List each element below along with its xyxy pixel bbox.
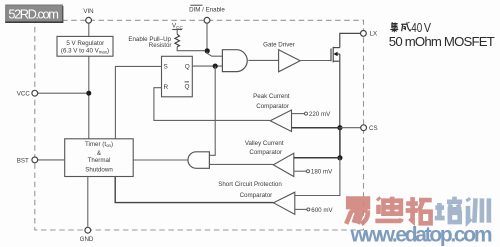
svg-text:Peak Current: Peak Current bbox=[253, 93, 290, 100]
wire latch R input from peak comparator bbox=[154, 88, 270, 121]
wire short output to timer (thick) bbox=[115, 177, 273, 203]
wire MOSFET drain to LX bbox=[340, 33, 361, 47]
terminal 600 mV bbox=[307, 208, 310, 211]
watermark glyph PEI (培) bbox=[435, 197, 462, 223]
svg-text:52RD.com: 52RD.com bbox=[8, 7, 59, 22]
watermark logo 52RD.com bbox=[6, 5, 63, 22]
svg-text:VIN: VIN bbox=[83, 8, 93, 15]
wire resistor to junction bbox=[177, 47, 205, 51]
pin VIN bbox=[86, 17, 92, 23]
wire lower AND output to timer bbox=[133, 159, 188, 161]
svg-text:S: S bbox=[164, 64, 168, 71]
svg-text:Q: Q bbox=[185, 64, 190, 71]
terminal 180 mV bbox=[307, 170, 310, 173]
svg-text:Resistor: Resistor bbox=[149, 42, 172, 49]
pin GND bbox=[85, 227, 91, 233]
svg-text:Thermal: Thermal bbox=[88, 157, 111, 164]
node pull-up junction bbox=[205, 48, 210, 53]
svg-text:www.edatop.com: www.edatop.com bbox=[350, 223, 493, 246]
wire VIN to regulator bbox=[88, 23, 90, 37]
terminal 220 mV bbox=[305, 112, 308, 115]
svg-text:Valley Current: Valley Current bbox=[245, 140, 284, 147]
svg-text:Q: Q bbox=[185, 83, 190, 90]
gate driver buffer triangle bbox=[279, 50, 301, 72]
node valley junction bbox=[337, 155, 342, 160]
wire peak ref input bbox=[292, 113, 305, 115]
pin CS bbox=[361, 125, 367, 131]
svg-text:50 mOhm MOSFET: 50 mOhm MOSFET bbox=[389, 34, 495, 49]
wire short ref input bbox=[295, 208, 307, 210]
wire latch S input from timer bbox=[115, 66, 161, 138]
svg-text:220 mV: 220 mV bbox=[309, 111, 331, 118]
svg-text:VCC: VCC bbox=[172, 23, 183, 30]
timer block bbox=[65, 139, 134, 177]
transistor Q1 power MOSFET bbox=[331, 47, 340, 63]
wire junction to AND gate top input bbox=[207, 52, 222, 57]
wire valley ref input bbox=[294, 170, 307, 172]
node VCC junction bbox=[86, 91, 91, 96]
wire DIM/Enable down to pull-up junction bbox=[206, 23, 208, 51]
wire MOSFET source down to CS node bbox=[339, 61, 341, 128]
wire latch Q output to AND gate bbox=[192, 65, 222, 67]
wire CS node down to valley node bbox=[339, 128, 341, 158]
svg-text:5 V Regulator: 5 V Regulator bbox=[66, 40, 104, 47]
title glyph CHENG (成) bbox=[401, 22, 410, 31]
wire VCC pin to junction bbox=[38, 92, 89, 94]
pin LX bbox=[361, 31, 367, 37]
wire peak CS input bbox=[292, 127, 340, 129]
svg-text:180 mV: 180 mV bbox=[311, 169, 333, 176]
watermark glyph TUO (拓) bbox=[406, 197, 432, 223]
svg-text:CS: CS bbox=[369, 125, 378, 132]
svg-text:DIM / Enable: DIM / Enable bbox=[189, 6, 225, 13]
wire CS node to CS pin bbox=[340, 127, 361, 129]
resistor enable pull-up bbox=[175, 34, 180, 47]
watermark glyph XUN (训) bbox=[467, 198, 488, 222]
latch SR box bbox=[162, 56, 193, 97]
wire driver to MOSFET gate bbox=[300, 60, 331, 62]
wire valley output to lower AND gate bbox=[209, 163, 273, 165]
svg-text:Comparator: Comparator bbox=[240, 192, 273, 199]
IC boundary dashed box bbox=[35, 20, 364, 230]
comparator short circuit bbox=[274, 192, 295, 214]
pin BST bbox=[32, 157, 38, 163]
svg-text:VCC: VCC bbox=[17, 91, 31, 98]
svg-text:Gate Driver: Gate Driver bbox=[263, 41, 295, 48]
regulator U1 box bbox=[57, 36, 113, 56]
svg-text:Comparator: Comparator bbox=[249, 149, 282, 156]
node CS junction bbox=[337, 125, 342, 130]
svg-text:V: V bbox=[424, 20, 431, 35]
svg-text:Comparator: Comparator bbox=[256, 103, 289, 110]
wire regulator to VCC junction to Timer bbox=[88, 56, 90, 139]
pin VCC bbox=[32, 90, 38, 96]
wire AND to gate driver bbox=[248, 59, 278, 61]
svg-text:Shutdown: Shutdown bbox=[85, 166, 113, 173]
svg-text:LX: LX bbox=[370, 31, 378, 38]
AND gate U3 (valley qualify, mirrored) bbox=[188, 152, 209, 169]
svg-text:R: R bbox=[164, 84, 169, 91]
wire valley node down and left to short-circuit comparator bbox=[295, 158, 340, 196]
comparator peak current bbox=[270, 110, 291, 132]
VCC supply symbol for pull-up bbox=[172, 23, 183, 35]
svg-text:40: 40 bbox=[411, 22, 422, 36]
svg-text:600 mV: 600 mV bbox=[311, 207, 333, 214]
wire timer to GND bbox=[87, 177, 89, 228]
svg-text:GND: GND bbox=[80, 236, 94, 243]
wire BST pin to timer bbox=[38, 159, 65, 161]
wire valley CS input bbox=[294, 157, 340, 159]
watermark glyph YI (易) bbox=[346, 199, 368, 225]
wire Q junction down to lower AND gate bbox=[209, 66, 215, 155]
svg-text:BST: BST bbox=[17, 157, 29, 164]
svg-text:Short Circuit Protection: Short Circuit Protection bbox=[218, 181, 282, 188]
comparator valley current bbox=[273, 153, 294, 176]
title glyph JI (集) bbox=[390, 22, 398, 32]
pin DIM/Enable bbox=[204, 17, 210, 23]
AND gate U2 (drive enable) bbox=[222, 50, 247, 72]
node Q junction bbox=[213, 64, 218, 69]
watermark glyph DI (迪) bbox=[375, 197, 401, 222]
